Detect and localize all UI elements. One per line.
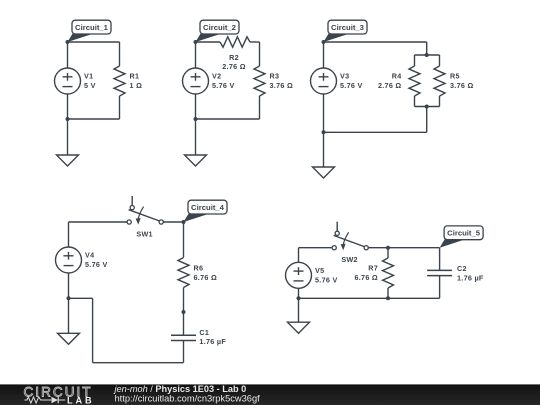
svg-text:R2: R2 — [229, 53, 239, 62]
svg-text:C2: C2 — [457, 264, 467, 273]
wire switch to C2 top — [368, 247, 439, 249]
svg-text:R7: R7 — [368, 264, 378, 273]
node parallel bottom — [425, 105, 429, 109]
ground circuit 3 — [313, 132, 335, 178]
node parallel top — [425, 53, 429, 57]
wire bottom rail circuit 4 — [69, 298, 184, 362]
node top-right circuit 4 — [182, 220, 186, 224]
node below V4 — [67, 296, 71, 300]
wire top-left circuit 2 — [196, 41, 221, 43]
resistor R5 (3.76 ohm) — [434, 55, 474, 107]
svg-text:V5: V5 — [315, 266, 324, 275]
resistor R7 (6.76 ohm) — [354, 248, 393, 299]
svg-text:Circuit_1: Circuit_1 — [75, 23, 109, 32]
voltage source V5 (5.76 V) — [286, 262, 338, 298]
svg-text:3.76 Ω: 3.76 Ω — [450, 81, 474, 90]
svg-text:R1: R1 — [130, 72, 140, 81]
ground circuit 5 — [288, 298, 310, 333]
label Circuit_2 — [196, 20, 240, 42]
voltage source V2 (5.76 V) — [183, 42, 235, 119]
svg-text:SW1: SW1 — [136, 229, 152, 238]
svg-text:5 V: 5 V — [84, 81, 96, 90]
svg-text:1.76 µF: 1.76 µF — [199, 337, 226, 346]
wire bottom rail circuit 3 — [324, 131, 427, 133]
svg-text:Circuit_4: Circuit_4 — [191, 203, 225, 212]
wire parallel bottom bar — [415, 106, 440, 108]
svg-text:5.76 V: 5.76 V — [85, 260, 108, 269]
wire bottom rail circuit 2 — [196, 118, 260, 120]
node top-left circuit 3 — [322, 40, 326, 44]
footer bar — [0, 384, 540, 405]
logo resistor-diode glyph — [25, 397, 66, 404]
ground circuit 2 — [185, 119, 207, 166]
svg-text:V4: V4 — [85, 251, 94, 260]
node bottom-left circuit 2 — [194, 117, 198, 121]
svg-text:1 Ω: 1 Ω — [130, 81, 143, 90]
wire bottom rail circuit 1 — [68, 118, 120, 120]
node bottom-left circuit 1 — [66, 117, 70, 121]
svg-text:V2: V2 — [212, 72, 221, 81]
svg-text:2.76 Ω: 2.76 Ω — [222, 62, 246, 71]
node top-left circuit 2 — [194, 40, 198, 44]
svg-text:Circuit_3: Circuit_3 — [331, 23, 364, 32]
capacitor C2 (1.76 uF) — [427, 248, 484, 299]
voltage source V3 (5.76 V) — [311, 42, 363, 132]
label Circuit_3 — [324, 20, 368, 42]
switch SW2 — [332, 222, 368, 264]
node R7 top — [386, 246, 390, 250]
resistor R1 (1 ohm) — [114, 42, 142, 119]
CircuitLab logo wordmark — [24, 384, 95, 405]
ground circuit 1 — [57, 119, 79, 166]
resistor R3 (3.76 ohm) — [254, 42, 293, 119]
wire top rail circuit 1 — [68, 41, 120, 43]
node R7 bottom — [386, 296, 390, 300]
svg-text:R6: R6 — [194, 264, 204, 273]
svg-text:http://circuitlab.com/cn3rpk5c: http://circuitlab.com/cn3rpk5cw36gf — [115, 394, 261, 404]
wire down to parallel pair — [426, 42, 428, 55]
switch SW1 — [127, 196, 163, 238]
wire V4 top to switch — [69, 222, 128, 247]
svg-text:LAB: LAB — [67, 395, 95, 405]
resistor R2 (2.76 ohm) — [220, 37, 250, 71]
svg-text:5.76 V: 5.76 V — [212, 81, 235, 90]
svg-text:Circuit_2: Circuit_2 — [203, 23, 236, 32]
node top-left circuit 1 — [66, 40, 70, 44]
voltage source V4 (5.76 V) — [56, 247, 108, 298]
svg-text:3.76 Ω: 3.76 Ω — [270, 81, 294, 90]
svg-text:2.76 Ω: 2.76 Ω — [378, 81, 402, 90]
node between R6 and C1 — [182, 310, 186, 314]
wire switch to node circuit 4 — [163, 221, 183, 223]
ground circuit 4 — [58, 298, 80, 344]
wire bottom rail circuit 5 — [299, 297, 440, 299]
wire down from parallel pair — [426, 107, 428, 133]
resistor R4 (2.76 ohm) — [378, 55, 420, 107]
label Circuit_1 — [68, 20, 112, 42]
node bottom-left circuit 3 — [322, 130, 326, 134]
resistor R6 (6.76 ohm) — [178, 222, 217, 312]
svg-text:V3: V3 — [340, 72, 349, 81]
svg-text:C1: C1 — [199, 328, 209, 337]
svg-text:5.76 V: 5.76 V — [340, 81, 363, 90]
svg-text:R3: R3 — [270, 72, 280, 81]
wire V5 top to switch — [299, 248, 333, 262]
svg-text:6.76 Ω: 6.76 Ω — [194, 273, 218, 282]
svg-text:6.76 Ω: 6.76 Ω — [354, 273, 378, 282]
svg-text:1.76 µF: 1.76 µF — [457, 273, 484, 282]
svg-text:SW2: SW2 — [341, 255, 357, 264]
svg-text:5.76 V: 5.76 V — [315, 275, 338, 284]
capacitor C1 (1.76 uF) — [171, 312, 226, 363]
wire top-right circuit 2 — [250, 41, 260, 43]
wire parallel top bar — [415, 54, 440, 56]
voltage source V1 (5 V) — [55, 42, 96, 119]
label Circuit_5 — [440, 226, 484, 248]
wire top rail circuit 3 — [324, 41, 427, 43]
svg-text:V1: V1 — [84, 72, 93, 81]
label Circuit_4 — [184, 200, 228, 222]
svg-text:R5: R5 — [450, 72, 460, 81]
node below V5 — [297, 296, 301, 300]
svg-text:R4: R4 — [392, 72, 402, 81]
svg-text:Circuit_5: Circuit_5 — [447, 229, 481, 238]
